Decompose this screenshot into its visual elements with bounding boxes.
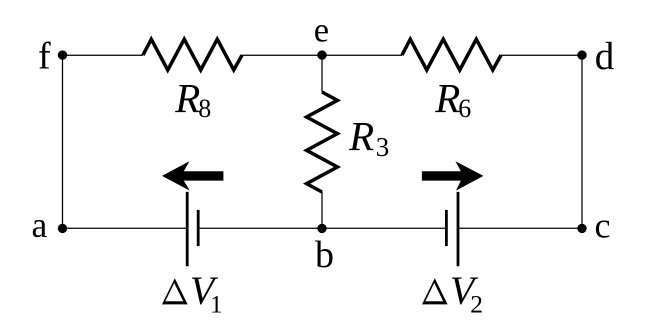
svg-text:R: R (348, 113, 374, 159)
svg-text:b: b (315, 234, 334, 276)
svg-text:2: 2 (470, 290, 483, 319)
svg-text:1: 1 (210, 291, 223, 318)
svg-text:e: e (314, 12, 329, 50)
svg-text:d: d (595, 35, 615, 78)
svg-text:R: R (174, 75, 200, 121)
svg-text:6: 6 (458, 94, 471, 123)
svg-text:8: 8 (198, 94, 211, 123)
svg-text:3: 3 (376, 132, 390, 162)
svg-text:R: R (434, 75, 460, 121)
svg-text:c: c (595, 205, 611, 245)
svg-text:a: a (32, 205, 48, 245)
svg-text:f: f (38, 35, 51, 77)
